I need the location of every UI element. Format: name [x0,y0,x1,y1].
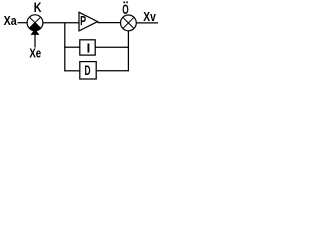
wire D output [96,70,129,72]
arrow Xe input [31,29,40,48]
svg-text:D: D [85,64,91,78]
summing junction O [120,15,136,31]
summing junction K [27,15,43,31]
wire I output [95,46,129,48]
svg-text:P: P [80,15,86,29]
wire Xa input [18,22,28,24]
svg-text:O: O [122,3,129,17]
wire P output [98,22,121,24]
wire to D [64,70,79,72]
svg-text:K: K [34,0,42,15]
node branch [64,23,66,71]
wire main [43,22,79,24]
wire Xv output [136,22,158,24]
svg-text:Xa: Xa [4,13,17,28]
svg-text:I: I [87,40,91,55]
block I [80,40,95,56]
block P (amplifier) [79,12,98,31]
svg-text:Xv: Xv [143,10,156,24]
block D [80,62,96,79]
wire collector [127,31,129,71]
svg-text:Xe: Xe [29,47,41,61]
wire to I [64,46,79,48]
